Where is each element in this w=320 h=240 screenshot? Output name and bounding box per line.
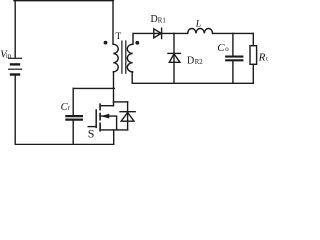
svg-text:R: R <box>258 51 266 63</box>
wire L to Co <box>213 32 254 34</box>
MOSFET S gate lead <box>88 126 96 128</box>
svg-text:L: L <box>195 18 201 29</box>
resistor Ro body <box>250 46 257 65</box>
MOSFET S arrow head <box>101 114 109 119</box>
battery V_in plate long top <box>9 57 22 59</box>
battery V_in plate long bottom <box>9 68 22 70</box>
svg-text:R2: R2 <box>195 59 204 66</box>
node dot secondary <box>135 41 139 45</box>
MOSFET S channel bar segment drain <box>99 104 101 110</box>
transformer T secondary top lead <box>133 33 188 44</box>
capacitor Cr plate bottom <box>66 118 82 120</box>
capacitor Cr bottom lead <box>72 121 74 145</box>
MOSFET S gate bar <box>95 110 97 127</box>
battery V_in plate short thick 2 <box>11 73 19 75</box>
diode DR1 cathode bar <box>161 28 163 38</box>
transformer T secondary winding <box>127 44 132 72</box>
wire output bottom rail <box>132 82 253 84</box>
svg-text:r: r <box>68 105 71 112</box>
svg-text:o: o <box>266 55 268 62</box>
MOSFET S drain lead <box>100 105 113 107</box>
body diode triangle <box>121 112 134 121</box>
transformer T primary bottom lead <box>113 72 115 106</box>
svg-text:D: D <box>187 56 194 67</box>
body diode cathode bar <box>120 111 135 113</box>
transformer T core line right <box>125 41 127 73</box>
transformer T secondary bottom lead <box>131 72 133 83</box>
capacitor Co bottom lead <box>232 61 234 83</box>
capacitor Co plate top <box>226 56 242 58</box>
wire left rail upper <box>14 1 16 58</box>
svg-text:in: in <box>6 53 12 60</box>
wire right rail upper <box>252 33 254 45</box>
MOSFET S channel bar segment source <box>99 123 101 131</box>
capacitor Cr plate top <box>66 115 82 117</box>
MOSFET S channel bar segment body <box>99 114 101 120</box>
wire source to bottom rail <box>113 130 115 144</box>
wire top rail <box>14 0 113 2</box>
diode DR2 triangle <box>169 54 180 62</box>
wire drain node horizontal <box>113 101 127 103</box>
svg-text:T: T <box>116 32 122 42</box>
svg-text:D: D <box>151 14 158 25</box>
wire left rail lower <box>14 76 16 145</box>
wire right rail lower <box>252 64 254 83</box>
inductor L winding <box>188 29 213 34</box>
MOSFET S source lead <box>100 129 128 131</box>
svg-text:C: C <box>217 42 225 54</box>
transformer T primary top lead <box>112 1 114 45</box>
diode DR2 lead <box>173 33 175 83</box>
svg-text:o: o <box>225 46 229 53</box>
body diode lead <box>127 102 129 130</box>
battery V_in plate short thick 1 <box>11 63 19 65</box>
wire clamp horizontal <box>73 87 114 89</box>
node dot primary <box>104 41 108 45</box>
svg-text:S: S <box>88 127 95 141</box>
capacitor Co plate bottom <box>226 59 242 61</box>
diode DR1 triangle <box>154 29 161 38</box>
diode DR2 cathode bar <box>168 52 180 54</box>
transformer T primary winding <box>113 44 118 72</box>
MOSFET S body lead <box>100 116 117 130</box>
transformer T core line left <box>121 41 123 73</box>
svg-text:R1: R1 <box>158 17 166 24</box>
wire bottom rail <box>15 143 114 145</box>
capacitor Co top lead <box>232 33 234 55</box>
capacitor Cr top lead <box>72 88 74 115</box>
